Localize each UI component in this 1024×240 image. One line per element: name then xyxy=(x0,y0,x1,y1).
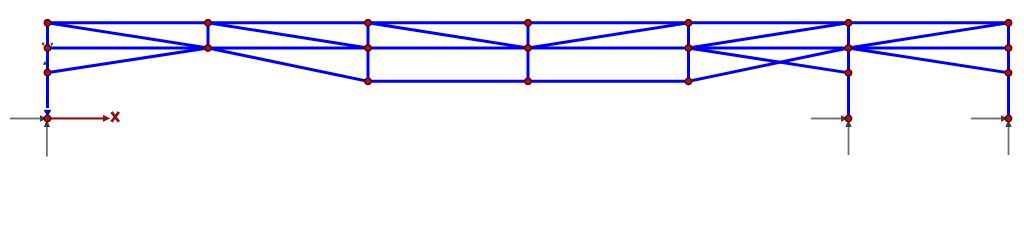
node F4 support xyxy=(845,115,852,122)
member diagonal D4 xyxy=(208,48,368,81)
member vertical V3 xyxy=(527,23,530,82)
node A2 xyxy=(44,45,51,52)
member diagonal D7 xyxy=(689,23,849,48)
node E1 xyxy=(685,20,692,27)
node D1 xyxy=(525,20,532,27)
member middle chord xyxy=(48,47,1009,50)
node G2 xyxy=(1005,45,1012,52)
node B1 xyxy=(205,20,212,27)
member bottom chord xyxy=(368,80,689,83)
member diagonal D9 xyxy=(689,48,849,81)
members (blue) xyxy=(48,23,1009,116)
hinge marks (green) at node A2 xyxy=(42,43,45,46)
member diagonal D2 xyxy=(48,48,209,73)
node G3 xyxy=(1005,70,1012,77)
axis X arrow (dark red) xyxy=(48,117,104,119)
node B2 xyxy=(205,45,212,52)
node A4 support xyxy=(44,115,51,122)
member diagonal D5 xyxy=(368,23,528,48)
node E2 xyxy=(685,45,692,52)
node F3 xyxy=(845,70,852,77)
member left column xyxy=(46,23,49,108)
node F1 xyxy=(845,20,852,27)
axis Z arrow (blue, pointing down at origin) xyxy=(44,110,52,117)
member vertical V4 xyxy=(687,23,690,82)
node D3 xyxy=(525,78,532,85)
member diagonal D1 xyxy=(48,23,209,48)
node C2 xyxy=(365,45,372,52)
support arrows node N1 (left) xyxy=(10,119,47,157)
hinge mark (green) above node A3 xyxy=(43,61,47,65)
node C3 xyxy=(365,78,372,85)
member diagonal D10 xyxy=(849,23,1009,48)
member diagonal D11 xyxy=(849,48,1009,73)
member diagonal D8 xyxy=(689,48,849,73)
member vertical V2 xyxy=(367,23,370,82)
node A1 xyxy=(44,20,51,27)
support arrows node N2 (middle right) xyxy=(811,119,849,156)
member top chord xyxy=(48,21,1009,24)
nodes (red dots) xyxy=(44,20,1012,122)
support arrows node N3 (right) xyxy=(971,119,1009,156)
member vertical V1 xyxy=(207,23,210,48)
node C1 xyxy=(365,20,372,27)
member diagonal D3 xyxy=(208,23,368,48)
member middle-right column xyxy=(847,23,850,116)
member diagonal D6 xyxy=(528,23,689,48)
node A3 xyxy=(44,69,51,76)
member right column xyxy=(1007,23,1010,116)
node D2 xyxy=(525,45,532,52)
node G4 support xyxy=(1005,115,1012,122)
node E3 xyxy=(685,78,692,85)
node F2 xyxy=(845,45,852,52)
node G1 xyxy=(1005,20,1012,27)
axis label X xyxy=(112,112,119,122)
